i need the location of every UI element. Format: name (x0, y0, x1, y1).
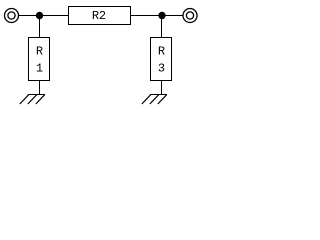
node A (junction dot) (36, 12, 43, 19)
svg-text:3: 3 (158, 62, 165, 76)
wire node A to R2 (40, 15, 69, 17)
wire R1 to ground (39, 81, 41, 95)
resistor R1 (29, 38, 50, 81)
svg-text:R: R (158, 45, 165, 59)
terminal T2 (right port) (183, 9, 197, 23)
wire node B to right terminal (162, 15, 183, 17)
svg-text:1: 1 (36, 62, 43, 76)
svg-text:R: R (36, 45, 43, 59)
wire node A to R1 (39, 16, 41, 38)
node B (junction dot) (158, 12, 165, 19)
wire node B to R3 (161, 16, 163, 38)
resistor R3 (151, 38, 172, 81)
ground (right earth symbol) (142, 95, 167, 105)
terminal T1 (left port) (5, 9, 19, 23)
svg-text:2: 2 (99, 9, 106, 23)
resistor R2 (69, 7, 131, 25)
wire left terminal to node A (19, 15, 40, 17)
wire R2 to node B (130, 15, 162, 17)
ground (left earth symbol) (20, 95, 45, 105)
wire R3 to ground (161, 81, 163, 95)
